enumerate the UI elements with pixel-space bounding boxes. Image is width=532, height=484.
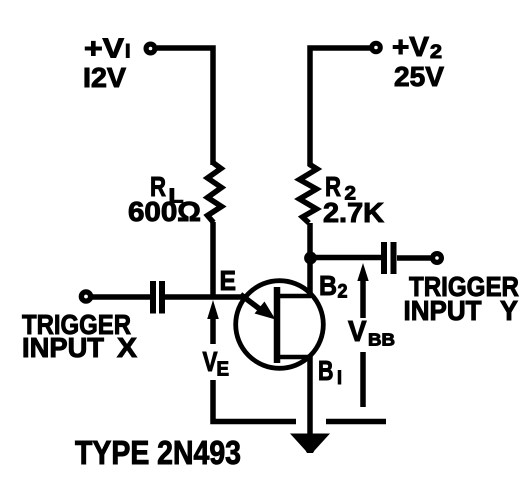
wire V1 terminal to RL: [157, 48, 213, 165]
transistor Q1 TYPE 2N493 UJT: [236, 281, 324, 369]
label RL: [150, 171, 184, 208]
svg-text:BB: BB: [368, 330, 395, 350]
svg-text:E: E: [220, 265, 237, 296]
svg-text:V: V: [348, 316, 367, 348]
svg-text:X: X: [117, 332, 137, 363]
resistor R2: [300, 164, 318, 223]
svg-text:B: B: [319, 270, 337, 301]
svg-text:2: 2: [338, 282, 348, 303]
capacitor C1: [153, 281, 162, 314]
svg-text:Y: Y: [500, 295, 518, 326]
label B1: [318, 355, 342, 389]
terminal trigger input X: [81, 292, 90, 301]
wire C1 to emitter: [165, 294, 246, 300]
label B2: [319, 270, 348, 303]
svg-text:V: V: [203, 346, 218, 377]
svg-text:+V: +V: [84, 33, 124, 64]
wire bottom reference rail right: [326, 419, 386, 425]
label TRIGGER INPUT Y: [404, 271, 520, 326]
ground: [290, 434, 330, 454]
arrow VE: [207, 300, 219, 344]
svg-text:INPUT: INPUT: [22, 332, 104, 363]
svg-text:2.7K: 2.7K: [323, 197, 384, 228]
label R2: [325, 171, 356, 205]
wire R2 to node B2: [307, 223, 313, 258]
svg-text:+V: +V: [392, 31, 429, 62]
svg-text:I: I: [125, 42, 131, 63]
junction node B2: [304, 252, 317, 265]
arrow VBB: [357, 263, 368, 318]
label TRIGGER INPUT X: [22, 309, 137, 363]
wire base one to ground: [307, 355, 313, 437]
label +V2: [392, 31, 442, 63]
transistor body circle: [236, 281, 324, 369]
capacitor C2: [384, 242, 394, 274]
svg-text:E: E: [217, 359, 230, 381]
terminal +V2: [372, 43, 381, 52]
svg-text:25V: 25V: [394, 61, 444, 92]
wire node B2 to base two: [307, 255, 313, 298]
svg-text:TYPE 2N493: TYPE 2N493: [75, 434, 241, 471]
svg-text:I: I: [337, 368, 342, 389]
base-two internal lead: [277, 294, 311, 299]
label +V1: [84, 33, 131, 64]
svg-text:I2V: I2V: [83, 62, 126, 93]
svg-text:600Ω: 600Ω: [128, 196, 201, 227]
base-one internal lead: [277, 355, 311, 360]
wire X terminal to C1: [92, 294, 150, 300]
wire VBB lower segment: [360, 352, 366, 407]
wire VE to bottom rail left: [213, 380, 296, 422]
wire V2 terminal to R2: [310, 48, 370, 166]
base bar: [274, 287, 281, 363]
label VBB: [348, 316, 395, 350]
svg-text:B: B: [318, 355, 334, 386]
terminal +V1: [146, 44, 155, 53]
svg-text:2: 2: [430, 42, 442, 63]
svg-text:INPUT: INPUT: [404, 295, 482, 326]
terminal trigger input Y: [433, 254, 442, 263]
wire RL to node E: [210, 222, 216, 299]
emitter arrow: [241, 295, 262, 311]
wire node B2 to C2: [310, 255, 381, 261]
wire C2 to Y terminal: [397, 255, 431, 261]
label VE: [203, 346, 230, 381]
resistor RL: [208, 163, 222, 223]
